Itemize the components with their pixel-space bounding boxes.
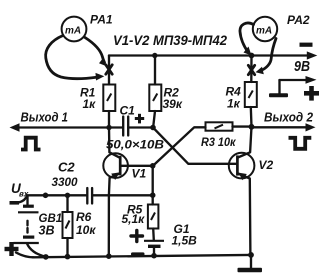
junction blob on rail (131, 252, 145, 255)
svg-text:V1-V2 МП39-МП42: V1-V2 МП39-МП42 (113, 32, 227, 48)
node X break for PA1 (106, 65, 112, 74)
wire output 1 line (15, 126, 123, 128)
meter PA2 (253, 17, 277, 41)
node R6 top (65, 193, 70, 198)
svg-text:тА: тА (256, 26, 272, 37)
wire PA1 loop lead left (46, 36, 97, 79)
svg-text:1,5В: 1,5В (172, 234, 198, 248)
svg-text:Выход 2: Выход 2 (264, 111, 313, 125)
wire R3 right to V2 collector node (233, 125, 252, 127)
svg-text:1к: 1к (227, 97, 241, 111)
svg-text:10к: 10к (76, 223, 96, 237)
svg-text:3В: 3В (39, 224, 55, 238)
resistor R2 (149, 85, 161, 112)
svg-text:R6: R6 (76, 210, 92, 224)
wire V1 emitter down to ground rail (108, 195, 110, 256)
wire output 2 line (252, 126, 309, 128)
node rail junction R4/PA2 (249, 53, 255, 59)
wire R4 top stub (250, 56, 253, 83)
wire cross-coupling A to V2 base (153, 128, 237, 164)
wire PA2 lead left loop (240, 23, 254, 52)
node base/C2/R5 (150, 192, 156, 198)
terminal minus input (10, 201, 20, 205)
wire cross-coupling B from V1 base to R3 (153, 127, 206, 166)
terminal plus input (5, 242, 19, 256)
wire R1 bottom stub (108, 111, 110, 128)
svg-text:50,0×10В: 50,0×10В (106, 140, 164, 152)
transistor V1 (103, 153, 128, 178)
svg-text:V1: V1 (132, 167, 147, 181)
svg-text:С1: С1 (120, 104, 136, 118)
node collector V1 junction (106, 125, 111, 130)
resistor R3 (206, 122, 233, 130)
node R2 bottom (150, 125, 156, 131)
wire top rail -9V (109, 54, 310, 56)
svg-text:5,1к: 5,1к (122, 212, 146, 226)
wire bottom common rail (33, 255, 251, 257)
svg-text:тА: тА (65, 26, 81, 37)
node X break for PA2 (248, 65, 254, 74)
battery GB1 (26, 196, 28, 205)
svg-text:Выход 1: Выход 1 (21, 111, 69, 125)
wire R2 bottom stub (153, 111, 155, 126)
ground (250, 255, 252, 268)
svg-text:9В: 9В (294, 59, 310, 75)
svg-text:1к: 1к (83, 97, 97, 111)
wire G1 to rail (153, 248, 155, 256)
svg-text:V2: V2 (259, 158, 274, 172)
wire C1 to R2 node (128, 126, 153, 128)
wire R2 top stub (154, 56, 156, 85)
node V1 base (150, 163, 156, 169)
meter PA1 (62, 17, 87, 42)
waveform pulse symbol output2 (289, 138, 312, 149)
wire PA2 lead right (261, 39, 276, 71)
wire GB1 to ground rail (27, 244, 45, 257)
capacitor C2 (86, 188, 88, 204)
svg-text:РА2: РА2 (287, 13, 310, 27)
wire base bias line (27, 194, 87, 196)
node GB1 curve joint (43, 193, 49, 199)
wire base node down (152, 166, 154, 205)
svg-text:R3 10к: R3 10к (201, 135, 236, 149)
wire left column from rail to R1 (108, 56, 110, 85)
waveform pulse symbol output1 (21, 138, 41, 150)
svg-text:РА1: РА1 (90, 13, 113, 27)
battery G1 (144, 240, 164, 242)
node V2 collector (249, 124, 255, 130)
wire R6 bottom stub (66, 238, 68, 257)
svg-text:39к: 39к (163, 97, 183, 111)
resistor R6 (66, 195, 68, 212)
wire R4 bottom stub (250, 107, 253, 127)
node rail junction R2 top (152, 53, 157, 58)
wire R5 to G1 (152, 229, 155, 241)
svg-text:С2: С2 (58, 160, 75, 175)
resistor R1 (103, 85, 115, 112)
resistor R4 (245, 82, 257, 107)
svg-text:3300: 3300 (52, 175, 78, 189)
capacitor C1 (122, 117, 124, 136)
power plus terminal symbol (269, 93, 288, 97)
wire PA1 lead right (85, 38, 105, 63)
resistor R5 (148, 205, 159, 229)
minus polarity bar of 9V supply (300, 43, 313, 47)
transistor V2 (229, 153, 255, 179)
